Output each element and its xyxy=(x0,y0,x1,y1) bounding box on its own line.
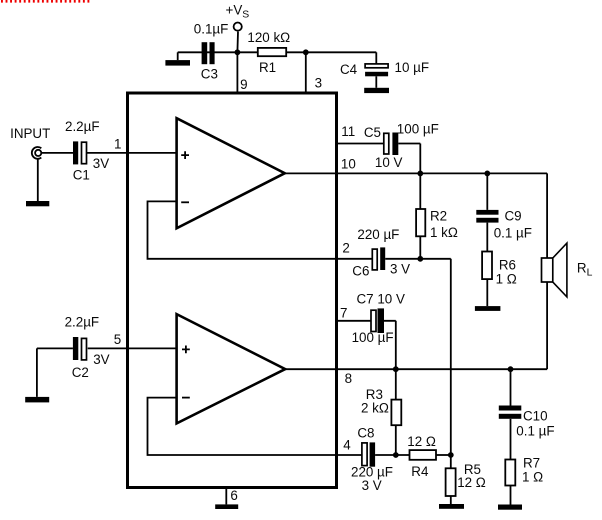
wire node to R5 xyxy=(450,455,452,468)
capacitor C3 xyxy=(202,42,215,64)
ground at pin 6 xyxy=(215,504,238,509)
capacitor C9 xyxy=(476,210,498,223)
op-amp B xyxy=(177,314,286,423)
capacitor C4 xyxy=(365,64,388,76)
svg-text:R2: R2 xyxy=(430,209,447,224)
wire top rail C3 to node 9 to R1 xyxy=(178,51,377,53)
junction pin 8 node at C10 xyxy=(508,366,514,372)
wire C1 to op-amp A + input, pin 1 xyxy=(87,152,177,154)
op-amp A xyxy=(177,118,285,228)
wire speaker to pin 8 net xyxy=(546,282,548,369)
svg-text:10 µF: 10 µF xyxy=(395,60,430,75)
svg-text:C4: C4 xyxy=(340,62,358,77)
svg-text:5: 5 xyxy=(114,332,121,347)
svg-text:8: 8 xyxy=(345,371,352,386)
wire R3 to node 4 xyxy=(395,425,397,455)
wire C7 to pin 8 node xyxy=(384,321,396,369)
capacitor C1 xyxy=(73,141,87,164)
IC box U1 xyxy=(128,93,337,488)
svg-text:0.1 µF: 0.1 µF xyxy=(494,226,532,241)
wire op-amp B output pin 8 net xyxy=(285,368,547,370)
wire pin 9 xyxy=(236,52,238,93)
wire C9 to R6 xyxy=(486,223,488,252)
ground at R5 xyxy=(439,504,464,509)
svg-text:4: 4 xyxy=(343,438,351,453)
wire pin 7 to C7 xyxy=(336,320,371,322)
junction output node at R2 xyxy=(417,171,423,177)
svg-text:1: 1 xyxy=(114,137,121,152)
wire R7 to ground xyxy=(510,486,512,505)
ground at C4 xyxy=(364,88,389,93)
svg-text:C1: C1 xyxy=(73,167,90,182)
svg-text:3: 3 xyxy=(315,75,322,90)
svg-text:2.2µF: 2.2µF xyxy=(65,119,100,134)
ground at C2 xyxy=(25,397,49,403)
wire C5 to output node xyxy=(398,144,420,174)
svg-text:11: 11 xyxy=(341,124,355,139)
svg-text:6: 6 xyxy=(230,488,237,503)
svg-text:1 Ω: 1 Ω xyxy=(496,272,517,287)
svg-text:C9: C9 xyxy=(505,209,522,224)
wire C6 to R2 node and down-wire xyxy=(385,259,451,455)
capacitor C6 xyxy=(372,247,385,270)
wire op-amp A output pin 10 net xyxy=(285,173,547,258)
svg-text:12 Ω: 12 Ω xyxy=(457,475,486,490)
ground at R6 xyxy=(475,306,501,311)
wire op-amp A feedback to pin 2 xyxy=(148,201,373,258)
svg-text:2: 2 xyxy=(342,241,349,256)
junction node 4 xyxy=(393,452,399,458)
wire C4 to ground xyxy=(375,76,377,88)
wire +Vs terminal to node 9 xyxy=(236,32,239,53)
wire R4 to R5 node xyxy=(436,454,451,456)
svg-text:3 V: 3 V xyxy=(362,478,382,493)
resistor R2 xyxy=(416,209,425,236)
wire node to R3 xyxy=(395,369,397,399)
svg-text:C5: C5 xyxy=(364,125,381,140)
resistor R3 xyxy=(391,400,401,426)
resistor R7 xyxy=(505,460,515,486)
svg-text:220 µF: 220 µF xyxy=(357,227,399,242)
svg-text:10 V: 10 V xyxy=(375,155,403,170)
wire C10 to R7 xyxy=(510,419,512,460)
svg-text:R1: R1 xyxy=(259,60,276,75)
wire node 3 to C4 xyxy=(375,52,377,63)
svg-text:3V: 3V xyxy=(93,352,109,367)
ground at C3 xyxy=(165,52,190,65)
svg-text:2.2µF: 2.2µF xyxy=(65,315,100,330)
svg-text:R4: R4 xyxy=(411,464,429,479)
svg-text:R7: R7 xyxy=(523,456,540,471)
wire C10 node down xyxy=(510,369,512,405)
svg-text:3V: 3V xyxy=(93,156,109,171)
ground at input xyxy=(26,159,49,207)
svg-text:C2: C2 xyxy=(72,365,89,380)
wire C2 to op-amp B + input, pin 5 xyxy=(88,347,177,349)
resistor R6 xyxy=(482,252,492,280)
wire op-amp B feedback to pin 4 xyxy=(148,398,362,455)
wire C8 to node 4 xyxy=(375,454,409,456)
resistor R5 xyxy=(446,468,456,496)
svg-text:100 µF: 100 µF xyxy=(352,330,394,345)
junction node 3 xyxy=(303,49,309,55)
svg-text:INPUT: INPUT xyxy=(10,126,50,141)
wire R5 to ground xyxy=(450,496,452,504)
speaker RL xyxy=(542,243,567,297)
junction R4 R5 node xyxy=(448,452,454,458)
ground at R7 xyxy=(498,505,522,510)
wire input to C1 xyxy=(42,152,73,154)
wire pin 11 to C5 xyxy=(336,143,384,145)
resistor R1 xyxy=(258,48,286,56)
svg-text:C3: C3 xyxy=(201,67,218,82)
svg-text:C7 10 V: C7 10 V xyxy=(357,291,405,306)
svg-text:0.1 µF: 0.1 µF xyxy=(516,424,554,439)
svg-text:C6: C6 xyxy=(352,264,369,279)
+Vs terminal circle xyxy=(234,23,242,31)
svg-text:7: 7 xyxy=(340,305,347,320)
svg-text:0.1µF: 0.1µF xyxy=(194,21,229,36)
junction node 9 xyxy=(235,49,241,55)
junction pin 8 node at R3 xyxy=(393,366,399,372)
wire pin 3 xyxy=(305,52,307,93)
svg-text:100 µF: 100 µF xyxy=(397,122,439,137)
resistor R4 xyxy=(410,450,437,460)
svg-text:120 kΩ: 120 kΩ xyxy=(247,30,290,45)
svg-text:C8: C8 xyxy=(357,425,374,440)
junction node 2 R2 xyxy=(417,256,423,262)
junction output node at C9 xyxy=(484,171,490,177)
wire output node to C9 xyxy=(486,173,488,210)
capacitor C10 xyxy=(499,406,522,419)
capacitor C5 xyxy=(384,133,399,156)
input connector xyxy=(32,147,42,159)
capacitor C7 xyxy=(371,308,384,333)
capacitor C2 xyxy=(73,337,87,360)
wire R2 to node 2 xyxy=(419,236,421,258)
wire pin 6 to ground xyxy=(225,489,227,504)
svg-text:C10: C10 xyxy=(523,409,548,424)
wire C2 left to ground xyxy=(37,348,73,397)
svg-text:9: 9 xyxy=(240,77,247,92)
svg-text:1 Ω: 1 Ω xyxy=(522,469,543,484)
svg-text:12 Ω: 12 Ω xyxy=(407,434,436,449)
svg-text:3 V: 3 V xyxy=(390,262,410,277)
svg-text:2 kΩ: 2 kΩ xyxy=(361,400,389,415)
wire R6 to ground xyxy=(486,279,488,306)
svg-text:10: 10 xyxy=(341,156,356,171)
capacitor C8 xyxy=(362,442,375,466)
wire output node to R2 xyxy=(419,173,421,209)
svg-text:R6: R6 xyxy=(499,258,516,273)
svg-text:1 kΩ: 1 kΩ xyxy=(430,225,458,240)
